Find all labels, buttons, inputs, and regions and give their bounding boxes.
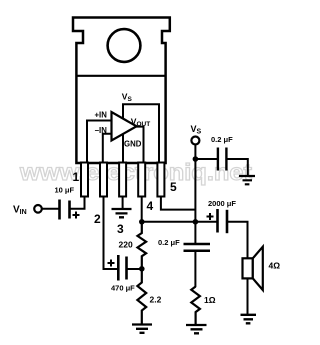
ground (pin 3)	[112, 209, 132, 217]
svg-text:+IN: +IN	[95, 111, 108, 120]
svg-text:2.2: 2.2	[150, 295, 162, 305]
svg-text:−IN: −IN	[95, 126, 108, 135]
node D junction dot	[193, 156, 199, 162]
svg-text:1Ω: 1Ω	[204, 295, 216, 305]
wire C5 to R3	[194, 251, 196, 287]
terminal VIN circle	[34, 205, 42, 213]
wire pin 2 down	[104, 196, 118, 269]
ground (R3)	[186, 325, 207, 333]
wire C1 to pin 1	[70, 196, 85, 209]
pin 5	[157, 163, 164, 197]
node A junction dot	[139, 219, 145, 225]
wire speaker to ground	[247, 278, 249, 314]
IC U1 TO-220 package tab outline	[73, 18, 170, 164]
capacitor C2 plus sign	[108, 260, 115, 267]
wire node C to C5	[194, 222, 196, 244]
capacitor C4 2000uF plates	[216, 209, 219, 233]
node B junction dot	[139, 266, 145, 272]
speaker LS1 body	[243, 258, 253, 278]
capacitor C1 10uF plates	[58, 200, 61, 220]
svg-text:2000 μF: 2000 μF	[208, 199, 236, 208]
pin 4	[138, 163, 145, 197]
pin 1	[81, 163, 88, 197]
speaker LS1 cone	[253, 247, 263, 290]
capacitor C4 plus sign	[207, 213, 214, 220]
wire node D to C3	[195, 158, 217, 160]
ground (R2)	[132, 325, 152, 333]
op-amp U1 VS wire	[123, 104, 159, 162]
wire VS to node D	[194, 145, 196, 160]
svg-text:4: 4	[147, 199, 154, 213]
pin 2	[100, 163, 107, 197]
svg-text:10 μF: 10 μF	[55, 186, 75, 195]
wire output rail node A to C5	[142, 221, 217, 223]
capacitor C1 plus sign	[73, 212, 80, 219]
wire VIN to C1	[42, 208, 59, 210]
terminal VS circle	[191, 137, 199, 145]
pin 3	[119, 163, 126, 197]
wire pin 4 to node A	[141, 196, 143, 222]
svg-text:1: 1	[73, 170, 80, 184]
svg-text:0.2 μF: 0.2 μF	[211, 135, 233, 144]
op-amp U1 GND wire	[122, 134, 124, 162]
node C junction dot	[193, 219, 199, 225]
wire C2 to node B	[127, 268, 142, 270]
op-amp U1 VOUT wire	[134, 127, 144, 162]
op-amp U1 triangle	[112, 112, 137, 141]
svg-text:470 μF: 470 μF	[111, 284, 135, 293]
ground (C3)	[239, 176, 255, 184]
IC tab/body separator line	[76, 75, 165, 77]
capacitor C2 470uF plates	[117, 255, 120, 281]
wire C3 to ground	[226, 159, 247, 176]
capacitor C3 0.2uF plates	[217, 148, 219, 171]
svg-text:3: 3	[117, 222, 124, 236]
resistor R3 1 ohm	[191, 287, 200, 325]
wire C4 to speaker	[227, 222, 248, 258]
wire pin 5 to VS line	[161, 196, 196, 210]
resistor R2 2.2	[137, 269, 146, 324]
ground (speaker)	[241, 315, 257, 324]
op-amp U1 +IN wire	[87, 121, 112, 163]
op-amp U1 -IN wire	[103, 134, 112, 162]
svg-text:2: 2	[94, 212, 101, 226]
wire pin 3 to ground	[122, 196, 124, 209]
resistor R1 220	[138, 222, 147, 269]
wire node D down to node C	[194, 159, 196, 222]
capacitor C5 0.2uF plates	[184, 244, 211, 251]
IC mounting hole	[108, 29, 141, 62]
svg-text:220: 220	[119, 240, 133, 250]
svg-text:5: 5	[170, 180, 177, 194]
svg-text:0.2 μF: 0.2 μF	[158, 238, 180, 247]
svg-text:4Ω: 4Ω	[269, 261, 281, 271]
svg-text:GND: GND	[124, 139, 142, 148]
